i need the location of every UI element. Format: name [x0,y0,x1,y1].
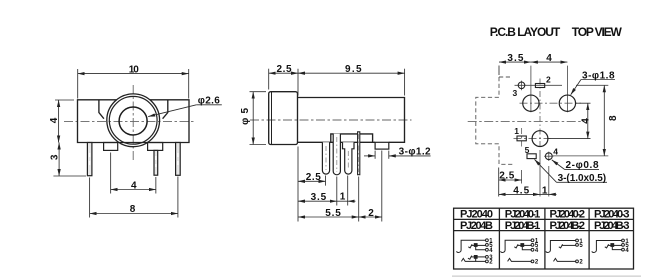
svg-text:2.5: 2.5 [277,64,292,75]
svg-text:5.5: 5.5 [325,208,341,219]
barrel outer circle [107,94,160,147]
dimension 1 (pcb bottom) [540,193,557,195]
pin 3 shoulder [343,142,355,174]
wire to terminal 4 [476,246,486,249]
flange [269,92,298,145]
dimension 4.5 (pcb bottom) [499,193,540,195]
svg-text:3-φ1.2: 3-φ1.2 [399,146,431,157]
dimension 4 (pcb right vertical) [549,103,591,138]
junction square 5 [474,244,477,247]
centerline side view [250,119,412,121]
right ear cut [163,100,168,119]
svg-text:3.5: 3.5 [311,192,327,203]
svg-text:2: 2 [579,260,583,266]
svg-text:4: 4 [546,53,552,64]
dimension 8 (front bottom outer) [90,177,178,218]
column dashed pad2 to middle circle [539,79,541,149]
svg-text:4: 4 [625,248,629,254]
svg-text:1: 1 [542,185,548,196]
table grid [454,208,634,269]
svg-text:3.5: 3.5 [507,53,523,64]
schematic cell 3 : PJ2040-2 [546,239,579,263]
row centerline pad1/middle circle [514,138,551,140]
svg-text:4: 4 [131,181,137,192]
svg-text:10: 10 [129,65,139,76]
row line pads 2-3 [515,84,563,86]
wire to terminal 2 / sleeve [476,258,486,261]
svg-text:3-φ1.8: 3-φ1.8 [582,70,615,81]
right leg [176,143,181,176]
pad 1 slot [517,136,526,141]
svg-text:2: 2 [535,260,539,266]
left ear cut [99,100,104,119]
svg-text:4: 4 [581,118,592,124]
dimension 9.5 (side top) [298,69,405,96]
label 2-phi0.8 with leader [552,160,599,170]
svg-text:PJ204B: PJ204B [460,220,493,232]
svg-text:8: 8 [608,115,619,121]
svg-text:PJ2040: PJ2040 [460,209,493,221]
left leg [87,143,92,176]
dimension 4 (front bottom inner) [111,153,156,194]
pad 3 small hole [518,82,525,89]
pad 4 small hole [545,153,552,160]
svg-text:4: 4 [49,117,60,123]
label 3-(1.0x0.5) with leader [535,159,608,182]
leg holes [90,153,178,167]
foot right [375,142,389,149]
tip contact and terminal 1 wire [456,240,486,252]
svg-text:8: 8 [130,204,136,215]
hole top-center phi1.8 [523,95,539,111]
dimension 2.5 (pcb bottom) [499,168,522,197]
mid right leg [154,150,158,175]
svg-text:2-φ0.8: 2-φ0.8 [566,160,599,171]
dimension 2.5 (side top) [269,69,298,96]
column line pad3 [521,81,523,91]
switch contact 5 [468,244,472,248]
left stub [104,143,118,151]
dimension phi5 (side left) [250,92,267,145]
dimension 10 (front top) [78,69,189,99]
row line pads 5-4 to dim 8 [553,155,609,157]
junction square 3 [474,256,477,259]
pin 4 (thin) [358,132,360,175]
svg-text:5: 5 [525,145,530,155]
terminal circles [486,239,489,242]
svg-text:2.5: 2.5 [306,172,321,183]
body side view [298,98,405,143]
svg-text:4.5: 4.5 [513,185,529,196]
right stub [148,143,163,151]
row centerline top circles [520,102,582,104]
dimension 2.5 (side bottom) [298,147,326,222]
pin centre dashes [336,137,338,172]
svg-text:4: 4 [553,146,558,156]
label phi2.6 with leader [148,105,222,117]
schematic cell 4 : PJ2040-3 [592,239,625,252]
schematic cell 1 : PJ2040 [456,239,488,263]
column line top-center circle [530,66,532,113]
svg-text:φ2.6: φ2.6 [198,96,220,107]
svg-text:1: 1 [340,191,346,202]
dimension 3.5 (pcb top) [499,62,531,75]
dimension 3-phi1.2 (side right leader) [364,151,431,159]
pin 1 [322,142,329,174]
schematic cell 2 : PJ2040-1 [500,239,533,263]
dimension 3.5 (side bottom) [298,177,337,206]
svg-text:TOP VIEW: TOP VIEW [572,25,623,39]
svg-text:φ5: φ5 [240,107,251,124]
svg-text:4: 4 [535,248,539,254]
pin 2 (tall) [333,134,340,175]
svg-text:5: 5 [579,243,583,249]
svg-text:PJ2040-1: PJ2040-1 [505,209,541,221]
svg-text:P.C.B LAYOUT: P.C.B LAYOUT [490,25,561,39]
body front view [78,100,190,143]
column line top-right circle [566,66,568,113]
switch contact 3 [468,256,472,260]
centerline horizontal front view [64,120,196,122]
svg-text:2: 2 [546,75,551,85]
pad 2 slot [535,84,544,88]
table row 1 [460,209,629,232]
pad 4 cross horizontal [544,155,554,157]
svg-text:PJ204B-2: PJ204B-2 [550,220,586,232]
dimension 2 (side bottom) [359,151,382,222]
dimension 8 (pcb right vertical) [603,85,605,156]
svg-text:PJ204B-1: PJ204B-1 [505,220,541,232]
dimension 3 (front left lower) [53,143,86,177]
dimension 4 (front left upper) [55,100,74,143]
dimension 5.5 (side bottom) [298,177,359,222]
svg-text:PJ2040-3: PJ2040-3 [594,209,630,221]
svg-text:4: 4 [489,248,493,254]
svg-text:2: 2 [368,208,374,219]
barrel inner ring [109,96,157,144]
hole phi2.6 [119,107,147,135]
flange inner edge [271,92,273,144]
svg-text:2: 2 [489,260,493,266]
svg-text:3: 3 [49,154,60,160]
svg-text:PJ204B-3: PJ204B-3 [594,220,630,232]
hole top-right phi1.8 [559,95,575,111]
dashed component outline [476,77,514,164]
svg-text:2.5: 2.5 [499,170,514,181]
column dashed pad1 down [521,128,523,149]
label 3-phi1.8 with leader [571,80,615,95]
dimension 1 (side bottom) [337,176,356,206]
svg-text:PJ2040-2: PJ2040-2 [550,209,586,221]
main horizontal centerline pcb [468,120,583,122]
hole middle phi1.8 [532,131,548,147]
svg-text:3: 3 [513,88,518,98]
svg-text:1: 1 [514,126,519,136]
column line pad4 down [548,152,550,161]
svg-text:9.5: 9.5 [345,64,362,75]
faint scan shadow below table [452,275,641,277]
svg-text:3-(1.0x0.5): 3-(1.0x0.5) [558,173,607,184]
dimension 4 (pcb top) [531,61,568,63]
pad 5 slot [527,154,536,159]
centerline vertical front view [132,85,134,162]
